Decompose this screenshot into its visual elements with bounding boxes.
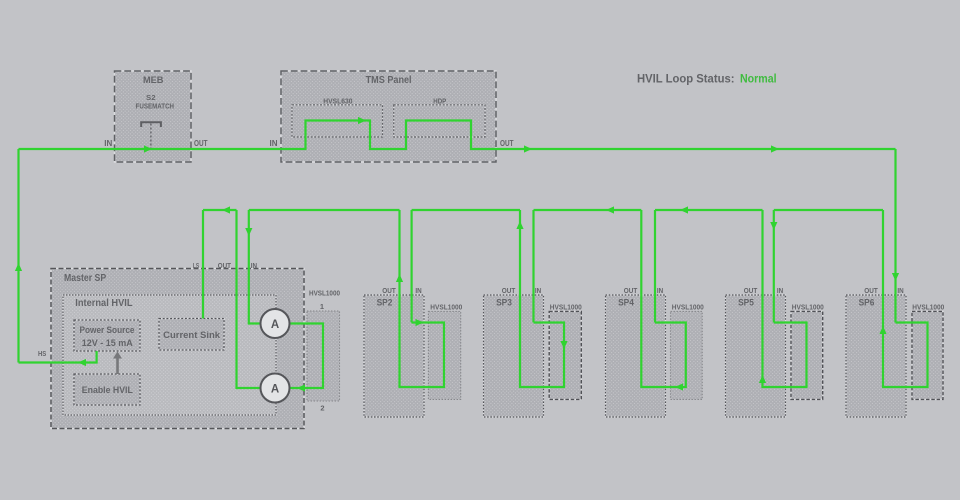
svg-text:OUT: OUT [500,139,514,148]
box MEB [115,71,192,162]
wire SP5 in drop [773,210,775,323]
wire rail SP6 to SP5 [774,209,883,211]
wire SP4 in drop [654,210,656,323]
svg-text:HVSL630: HVSL630 [323,97,352,106]
enable arrow Enable HVIL to Power Source [113,352,122,375]
arrow SP5 in down [770,222,777,230]
svg-text:Enable HVIL: Enable HVIL [82,385,133,396]
arrow SP3 out up [516,221,523,229]
box HVSL630 [292,97,383,137]
svg-text:TMS Panel: TMS Panel [366,74,412,86]
box SP6 [846,295,906,417]
svg-text:OUT: OUT [864,288,878,295]
arrow SP3 hvsl down [560,341,567,349]
svg-text:OUT: OUT [502,288,516,295]
svg-text:IN: IN [897,288,903,295]
arrow SP4 bottom left [675,383,683,390]
box HVSL1000 SP5 [791,302,824,399]
box HVSL1000 SP3 [549,302,582,399]
ammeter A2 [261,374,290,403]
svg-text:Master SP: Master SP [64,272,106,284]
wire through TMS [281,121,496,150]
arrow into lower ammeter left [297,384,305,391]
wire master in drop [249,210,261,324]
svg-text:Power Source: Power Source [80,325,135,335]
box Internal HVIL [63,295,276,415]
svg-text:A: A [271,319,279,331]
wire through MEB [115,148,192,150]
svg-text:Current Sink: Current Sink [163,330,221,341]
svg-text:IN: IN [657,288,663,295]
svg-text:Normal: Normal [740,72,777,86]
svg-text:HVIL Loop Status:: HVIL Loop Status: [637,72,735,86]
wire rail SP2 to master IN [249,209,400,211]
wire SP3 loop [520,210,564,387]
svg-text:OUT: OUT [624,288,638,295]
svg-text:OUT: OUT [194,139,208,148]
svg-text:IN: IN [251,263,257,270]
svg-text:HVSL1000: HVSL1000 [309,289,340,298]
wire TMS OUT to right riser [496,148,896,150]
svg-text:IN: IN [777,288,783,295]
svg-text:SP5: SP5 [738,297,754,308]
svg-text:HVSL1000: HVSL1000 [430,302,462,311]
svg-text:OUT: OUT [218,263,232,270]
wire left riser [17,149,19,363]
svg-text:HVSL1000: HVSL1000 [912,302,944,311]
svg-text:HVSL1000: HVSL1000 [792,302,824,311]
ammeter A1 [261,309,290,338]
box HDP [394,97,485,137]
arrow in TMS right [358,117,366,124]
arrow rail SP5-SP4 left [680,206,688,213]
svg-text:2: 2 [320,404,324,413]
svg-text:FUSEMATCH: FUSEMATCH [136,102,175,111]
wire MEB OUT to TMS IN [191,148,281,150]
wire SP6 loop [883,210,928,387]
svg-text:12V - 15 mA: 12V - 15 mA [82,338,133,348]
svg-text:SP4: SP4 [618,297,634,308]
arrow SP2 top right [416,319,424,326]
arrow mid right rail [771,145,779,152]
wire to MEB IN [19,148,115,150]
svg-text:HVSL1000: HVSL1000 [672,302,704,311]
svg-text:MEB: MEB [143,75,164,86]
box HVSL1000 SP6 [912,302,944,399]
arrow SP6 out up [879,326,886,334]
box Current Sink [159,319,224,351]
wire ammeter loop [290,324,324,389]
svg-text:A: A [271,383,279,395]
svg-text:LS: LS [193,263,200,270]
svg-text:HVSL1000: HVSL1000 [550,302,582,311]
svg-text:SP3: SP3 [496,297,512,308]
box Power Source [74,320,140,351]
arrow left riser up [15,263,22,271]
wire SP2 loop [400,210,445,387]
wire right riser down [894,149,896,323]
wire rail master OUT to LS [203,209,237,211]
wire SP5 loop [763,210,807,387]
arrow master in down [245,228,252,236]
svg-text:SP2: SP2 [377,297,393,308]
arrow rail out-ls left [222,206,230,213]
box HVSL1000 SP2 [428,302,462,399]
arrow SP5 out up [759,375,766,383]
arrow rail SP4-SP3 left [606,206,614,213]
box SP4 [606,295,666,417]
svg-text:1: 1 [320,302,324,311]
arrow after TMS out [524,145,532,152]
wire rail SP3 to SP2 [412,209,520,211]
svg-text:IN: IN [535,288,541,295]
box SP5 [726,295,786,417]
wire LS drop to current sink [202,210,204,319]
box TMS Panel [281,71,496,162]
svg-text:IN: IN [104,139,112,148]
wire SP4 loop [641,210,686,387]
svg-text:Internal HVIL: Internal HVIL [75,297,133,309]
wire lower ammeter to master OUT [237,210,262,388]
svg-text:SP6: SP6 [859,297,875,308]
arrow right riser down [892,273,899,281]
wire HS from Power Source [19,351,97,363]
wire SP3 in drop [532,210,534,323]
arrow HS left [78,359,86,366]
svg-text:HDP: HDP [433,97,446,106]
svg-text:OUT: OUT [382,288,396,295]
arrow SP2 out up [396,274,403,282]
box SP2 [364,295,424,417]
svg-text:IN: IN [270,139,278,148]
svg-text:HS: HS [38,351,47,358]
wire SP2 in drop [411,210,413,323]
wire rail SP5 to SP4 [655,209,763,211]
box Master SP [51,269,304,429]
svg-text:OUT: OUT [744,288,758,295]
box HVSL1000 SP4 [671,302,704,399]
box HVSL1000 master [307,289,340,402]
box SP3 [484,295,544,417]
fuse S2 symbol [141,122,161,148]
wire rail SP4 to SP3 [534,209,642,211]
svg-text:IN: IN [415,288,421,295]
box Enable HVIL [74,374,140,405]
arrow in MEB right [144,145,152,152]
